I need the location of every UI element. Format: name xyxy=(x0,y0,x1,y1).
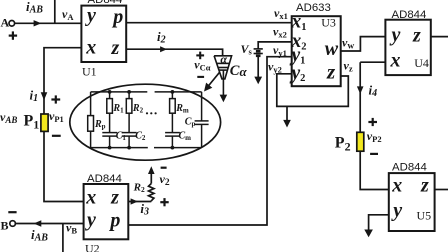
svg-text:Cα: Cα xyxy=(230,63,248,79)
wire U1.x left then down to P1 xyxy=(44,48,81,114)
branch Cp xyxy=(201,92,203,121)
capacitor Calpha funnel xyxy=(214,56,232,96)
minus sign P2 xyxy=(370,153,378,155)
wire U3.w to U4.y xyxy=(341,37,386,51)
svg-text:α: α xyxy=(220,52,227,66)
wire vertical junction to top edge xyxy=(54,0,56,23)
svg-text:p: p xyxy=(111,6,123,28)
current arrow i4 xyxy=(357,86,364,94)
wire A to U1.y xyxy=(15,22,82,24)
plus sign P2 xyxy=(368,118,377,126)
minus sign P1 xyxy=(52,135,61,137)
potentiometer P2 xyxy=(357,132,364,151)
op-amp U4 AD844 xyxy=(385,20,430,75)
svg-text:z: z xyxy=(110,187,119,209)
svg-text:y: y xyxy=(390,24,401,46)
wire U4.z off right xyxy=(431,36,448,38)
branch R1 C1 xyxy=(109,92,111,99)
svg-text:y: y xyxy=(85,5,96,27)
op-amp U5 AD844 xyxy=(389,173,435,231)
svg-text:AD844: AD844 xyxy=(392,9,427,21)
svg-text:y: y xyxy=(85,209,96,231)
v2 arrow xyxy=(150,173,152,184)
wire U2.z to R2 xyxy=(128,201,151,203)
wire U5.z off right xyxy=(435,189,448,191)
plus sign P1 xyxy=(51,95,60,103)
svg-text:x: x xyxy=(85,187,96,209)
op-amp U1 AD844 xyxy=(81,6,126,62)
svg-text:z: z xyxy=(420,175,429,197)
top bus xyxy=(91,91,148,93)
wire U1.z to Calpha funnel xyxy=(126,49,222,56)
equivalence arrow to ellipse xyxy=(208,72,220,87)
svg-text:A: A xyxy=(1,16,10,30)
svg-text:x: x xyxy=(85,37,96,59)
op-amp U2 AD844 xyxy=(84,184,129,239)
terminal A xyxy=(9,21,15,27)
wire battery to U3.x2 xyxy=(258,42,292,49)
current arrow iAB top xyxy=(34,20,42,26)
potentiometer P1 xyxy=(41,114,48,131)
minus sign vAB bottom xyxy=(8,211,16,213)
svg-text:B: B xyxy=(1,218,9,232)
wire U1.p to U3.x1 xyxy=(126,22,292,24)
branch Rm Cm xyxy=(171,92,173,99)
bottom bus xyxy=(91,147,148,149)
wire U3.z feedback loop to U3.y2 xyxy=(277,74,349,107)
current arrow i1 xyxy=(41,92,48,100)
svg-text:U2: U2 xyxy=(85,242,100,252)
plus sign v2 xyxy=(160,198,168,206)
svg-text:U5: U5 xyxy=(417,209,432,223)
current arrow i3 xyxy=(131,198,138,204)
minus sign v2 xyxy=(161,167,167,169)
svg-text:U3: U3 xyxy=(321,15,336,29)
branch R2 C2 xyxy=(128,92,130,99)
svg-text:AD844: AD844 xyxy=(87,173,122,185)
svg-text:z: z xyxy=(111,37,120,59)
battery Vs xyxy=(254,49,263,78)
wire P2 down then right to U5.x xyxy=(360,151,389,189)
wire vz node down to P2 xyxy=(359,62,361,132)
svg-text:x: x xyxy=(391,174,402,196)
branch Rp xyxy=(90,92,92,116)
svg-text:y: y xyxy=(391,200,402,222)
svg-text:x: x xyxy=(390,50,401,72)
ellipsis dots xyxy=(146,112,157,114)
terminal B xyxy=(10,221,16,227)
multiplier U3 AD633 xyxy=(292,16,341,86)
svg-text:AD844: AD844 xyxy=(392,162,427,174)
junction dots ladder xyxy=(108,90,175,150)
wire junction B down offscreen xyxy=(62,224,64,252)
ground under U5.y xyxy=(364,230,373,238)
ground under Calpha xyxy=(220,95,228,103)
svg-text:U1: U1 xyxy=(82,65,97,79)
plus sign vAB top xyxy=(9,31,17,39)
resistor R2 zigzag xyxy=(149,184,154,202)
wire P1 down then right to U2.x xyxy=(44,131,84,201)
svg-text:w: w xyxy=(325,38,339,60)
ground under Vs xyxy=(254,77,262,85)
plus sign vCalpha xyxy=(196,52,204,60)
wire B to U2.y xyxy=(16,223,84,225)
current arrow iAB bottom xyxy=(34,220,42,226)
svg-text:p: p xyxy=(108,210,120,232)
ground under U3 feedback xyxy=(286,106,288,121)
ellipse equivalent network xyxy=(70,84,221,160)
svg-text:z: z xyxy=(412,25,421,47)
wire U5.y left to ground xyxy=(369,215,389,230)
svg-text:U4: U4 xyxy=(414,56,429,70)
wire vz node to U4.x xyxy=(360,61,385,63)
svg-text:z: z xyxy=(326,60,336,84)
minus sign vCalpha xyxy=(197,76,204,78)
current arrow i2 xyxy=(160,46,167,52)
wire U2.p right and up to U3.y1 xyxy=(128,57,291,225)
